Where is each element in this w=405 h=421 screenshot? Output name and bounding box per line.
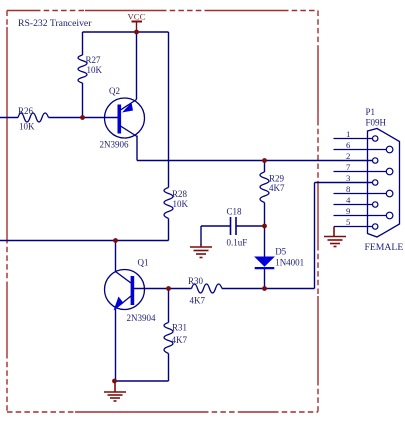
junction dot Q1 collector bbox=[113, 238, 118, 243]
svg-text:VCC: VCC bbox=[128, 12, 146, 22]
junction dot D5/R30/pin3 bbox=[262, 286, 267, 291]
wire: R31 column bottom bbox=[168, 354, 170, 382]
wires (navy) bbox=[0, 32, 372, 381]
svg-text:4: 4 bbox=[346, 195, 351, 205]
pin 1 bbox=[334, 138, 373, 140]
bottom edge bbox=[7, 411, 75, 413]
pin 8 bbox=[334, 193, 387, 195]
wire: R28 column from top rail bbox=[168, 32, 170, 188]
svg-text:6: 6 bbox=[346, 140, 351, 150]
svg-text:FEMALE: FEMALE bbox=[365, 242, 404, 253]
svg-text:C18: C18 bbox=[227, 207, 243, 217]
junction dot VCC rail bbox=[134, 30, 139, 35]
wire: pin3 horizontal bbox=[315, 182, 373, 184]
wire: D5 anode bbox=[264, 226, 266, 258]
transistor Q2 (PNP 2N3906) bbox=[105, 98, 145, 138]
wire: R27 column top bbox=[82, 32, 84, 55]
wire: R29 top bbox=[264, 161, 266, 173]
svg-text:R26: R26 bbox=[18, 106, 34, 116]
svg-text:10K: 10K bbox=[19, 122, 35, 132]
svg-text:R31: R31 bbox=[172, 323, 187, 333]
ground (Q1 emitter) bbox=[104, 381, 126, 401]
wire: C18 ground drop bbox=[200, 226, 202, 245]
capacitor C18 bbox=[231, 217, 237, 235]
dashed red block border bbox=[7, 11, 318, 413]
wire: pin3 vertical bbox=[314, 183, 316, 289]
wire: top rail y=32 bbox=[83, 31, 169, 33]
svg-text:10K: 10K bbox=[87, 65, 103, 75]
connector P1 F09H bbox=[334, 129, 400, 238]
svg-text:2N3906: 2N3906 bbox=[100, 140, 129, 150]
pin 7 bbox=[334, 171, 387, 173]
wire: Q2 collector vertical bbox=[136, 136, 138, 161]
wire: Q1 base to node bbox=[134, 288, 169, 290]
svg-text:R30: R30 bbox=[188, 276, 204, 286]
resistor R31 bbox=[164, 323, 173, 354]
wire: C18 left wire bbox=[201, 225, 231, 227]
wire: R27 column bottom bbox=[82, 83, 84, 118]
wire: bottom-left rail y=240.5 bbox=[0, 240, 169, 242]
svg-text:9: 9 bbox=[346, 206, 351, 216]
wire: bottom wire to ground bbox=[115, 380, 169, 382]
pin 3 bbox=[373, 180, 378, 185]
transistor Q1 (NPN 2N3904) bbox=[105, 270, 145, 311]
svg-text:4K7: 4K7 bbox=[172, 335, 188, 345]
diode D5 bbox=[255, 257, 273, 266]
svg-text:1: 1 bbox=[346, 129, 350, 139]
svg-text:5: 5 bbox=[346, 217, 351, 227]
svg-text:1N4001: 1N4001 bbox=[275, 258, 304, 268]
svg-text:P1: P1 bbox=[366, 107, 376, 117]
svg-text:0.1uF: 0.1uF bbox=[227, 238, 248, 248]
junction dot R29/C18/D5 bbox=[262, 224, 267, 229]
wire: collector node to pin2 bbox=[137, 160, 372, 162]
svg-text:R29: R29 bbox=[269, 174, 285, 184]
resistor R26 bbox=[18, 113, 49, 122]
svg-text:D5: D5 bbox=[275, 247, 286, 257]
wire: Q1 emitter vertical bbox=[115, 309, 117, 382]
svg-text:Q1: Q1 bbox=[138, 258, 149, 268]
svg-text:4K7: 4K7 bbox=[269, 183, 285, 193]
svg-text:7: 7 bbox=[346, 162, 351, 172]
resistor R29 bbox=[260, 172, 269, 203]
svg-text:8: 8 bbox=[346, 184, 351, 194]
junction dot collector/R29/pin2 bbox=[262, 158, 267, 163]
wire: D5 cathode to node bbox=[264, 268, 266, 289]
wire: R26 to Q2 base bbox=[49, 117, 118, 119]
wire: left input to R26 bbox=[0, 117, 18, 119]
svg-text:RS-232 Tranceiver: RS-232 Tranceiver bbox=[18, 18, 92, 29]
pin 4 bbox=[334, 204, 373, 206]
junction dot R27/R26/base bbox=[80, 115, 85, 120]
wire: node to R30 bbox=[169, 288, 192, 290]
VCC power symbol bbox=[132, 22, 143, 33]
wire: C18 right to node bbox=[236, 225, 265, 227]
svg-text:2: 2 bbox=[346, 151, 350, 161]
svg-text:F09H: F09H bbox=[366, 118, 387, 128]
pin 5 bbox=[334, 226, 373, 228]
svg-text:2N3904: 2N3904 bbox=[127, 313, 156, 323]
ground (C18) bbox=[190, 244, 212, 258]
wire: R30 right to pin3 column bbox=[222, 288, 315, 290]
svg-text:10K: 10K bbox=[173, 199, 189, 209]
junction dot Q1 base/R30/R31 bbox=[166, 286, 171, 291]
pin 6 bbox=[334, 149, 387, 151]
wire: R28 bottom bbox=[168, 219, 170, 241]
svg-text:R27: R27 bbox=[86, 55, 102, 65]
right edge bbox=[317, 11, 319, 48]
svg-text:3: 3 bbox=[346, 173, 351, 183]
wire: Q2 emitter vertical to VCC rail bbox=[136, 32, 138, 100]
wire: Q1 collector vertical bbox=[115, 241, 117, 272]
resistor R30 bbox=[192, 284, 223, 293]
top edge dashed bbox=[7, 10, 35, 12]
resistor R27 bbox=[78, 55, 87, 83]
svg-text:4K7: 4K7 bbox=[190, 296, 206, 306]
svg-text:Q2: Q2 bbox=[109, 86, 120, 96]
pin 9 bbox=[334, 215, 387, 217]
svg-text:R28: R28 bbox=[172, 189, 188, 199]
resistor R28 bbox=[164, 188, 173, 219]
left edge bbox=[6, 11, 8, 28]
wire: R31 column top bbox=[168, 289, 170, 323]
wire: R29 bottom bbox=[264, 203, 266, 227]
pin 2 bbox=[373, 158, 378, 163]
junction dot Q1 emitter/ground bbox=[112, 379, 117, 384]
ground (pin 5) bbox=[324, 227, 346, 247]
